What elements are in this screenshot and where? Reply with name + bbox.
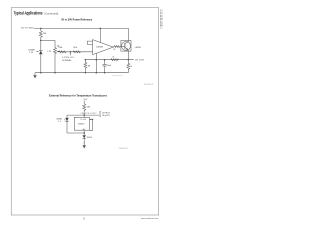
resistor R6 in rail (111, 59, 118, 61)
output bracket (99, 111, 102, 116)
svg-text:-1.2: -1.2 (58, 121, 61, 123)
svg-text:240k: 240k (73, 47, 77, 49)
diode D2 LM385 (65, 118, 68, 121)
node ground stem dot (84, 143, 85, 144)
diode D1 LM385 (39, 40, 43, 50)
node adj loop junction (92, 119, 93, 120)
output rail wire (85, 59, 133, 61)
node ground junction 5 (104, 72, 106, 74)
transistor Q1 LM395 box (121, 41, 131, 52)
svg-text:200: 200 (43, 33, 46, 35)
ground wire (83, 138, 85, 145)
node ground junction 4 (96, 72, 98, 74)
node mid (70, 51, 72, 53)
svg-text:5V OUT: 5V OUT (135, 60, 145, 62)
supply label 15V (83, 99, 87, 101)
ground rail (35, 72, 128, 74)
svg-text:External Reference for Tempera: External Reference for Temperature Trans… (49, 95, 108, 98)
op-amp V+ wire (99, 28, 101, 42)
figure code 1 (144, 84, 153, 86)
op-amp U1 LM308 (93, 40, 114, 55)
resistor R3 (59, 51, 66, 53)
svg-text:5V to 30V Power Reference: 5V to 30V Power Reference (61, 18, 93, 22)
resistor R7 divider (84, 60, 87, 73)
resistor R8 load (127, 60, 130, 73)
svg-text:Typical Applications: Typical Applications (14, 10, 43, 15)
svg-text:2k: 2k (112, 57, 114, 59)
ground symbol (83, 145, 86, 148)
node supply (83, 114, 85, 116)
svg-text:LM395: LM395 (135, 47, 142, 49)
svg-text:DS005519-26: DS005519-26 (144, 84, 153, 86)
node top-left (40, 28, 42, 30)
input label (21, 27, 34, 29)
resistor R4 (73, 51, 80, 53)
node stub label (69, 52, 71, 56)
node D output (128, 59, 130, 61)
title circuit 2 (49, 95, 108, 98)
node ground junction 2 (54, 72, 56, 74)
svg-text:6.8k: 6.8k (87, 106, 90, 108)
svg-text:(Continued): (Continued) (44, 11, 58, 15)
node top op-amp (100, 28, 102, 30)
wire label leader D1 (36, 51, 39, 53)
svg-text:LM308: LM308 (96, 47, 103, 49)
node reference voltage label (47, 51, 51, 53)
node ground junction 1 (40, 72, 42, 74)
rail wire (67, 114, 99, 116)
potentiometer R2 (54, 40, 57, 72)
svg-text:OUTPUT: OUTPUT (102, 112, 111, 114)
svg-text:www.national.com: www.national.com (141, 217, 159, 220)
emitter wire down (127, 51, 129, 60)
node B feedback (96, 59, 98, 61)
sensor U2 LM335 box (74, 117, 89, 130)
resistor R5 base (113, 46, 121, 48)
wire label leader D2 (64, 119, 65, 121)
adj loop wire (89, 119, 92, 130)
svg-text:2k: 2k (113, 49, 115, 51)
svg-text:240k: 240k (58, 47, 62, 49)
op-amp V- wire (95, 53, 97, 72)
svg-text:1k: 1k (130, 66, 132, 68)
output label (135, 60, 145, 62)
svg-text:10 mV/˚K: 10 mV/˚K (102, 114, 111, 117)
svg-text:DS005519-27: DS005519-27 (119, 148, 128, 150)
svg-text:LM335: LM335 (78, 124, 85, 126)
figure code 2 (119, 148, 128, 150)
svg-text:NOMINAL: NOMINAL (62, 59, 71, 62)
op-amp input loop wire (87, 41, 92, 44)
node C capacitor tap (104, 59, 106, 61)
svg-text:1N914: 1N914 (87, 137, 92, 139)
pin bottom (83, 130, 85, 133)
top rail wire (34, 28, 129, 40)
bottom rail wire (67, 132, 84, 134)
node junction left (40, 40, 42, 42)
svg-text:LM185-1.2/LM285-1.2/LM385-1.2: LM185-1.2/LM285-1.2/LM385-1.2 (159, 10, 163, 29)
capacitor C1 (104, 60, 106, 65)
node A divider tap (85, 59, 87, 61)
ground symbol (34, 73, 36, 76)
diode D3 (83, 133, 85, 135)
left branch wire (66, 115, 68, 133)
resistor R1 (39, 28, 42, 40)
node ground junction 3 (85, 72, 87, 74)
svg-text:10 mV/K: 10 mV/K (80, 119, 86, 121)
mid rail wire (59, 51, 93, 53)
title circuit 1 (61, 18, 93, 22)
resistor R9 (83, 101, 86, 116)
wire branch to pot (41, 39, 55, 41)
page frame (11, 8, 158, 215)
pin top (83, 115, 85, 117)
svg-text:5V TO 30V: 5V TO 30V (21, 27, 34, 29)
stray mark (112, 75, 123, 77)
tiny cal note (81, 112, 97, 115)
